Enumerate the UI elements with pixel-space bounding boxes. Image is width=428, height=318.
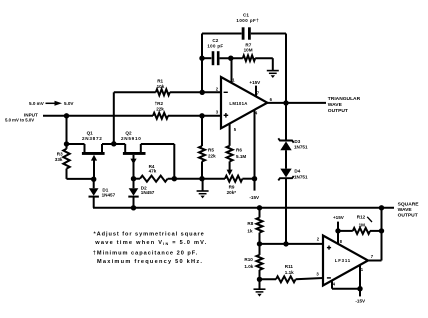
- svg-text:D3: D3: [294, 139, 300, 144]
- svg-text:2N5910: 2N5910: [121, 136, 142, 141]
- svg-text:D4: D4: [294, 169, 300, 174]
- svg-text:R8: R8: [247, 221, 253, 226]
- svg-text:R11: R11: [285, 264, 294, 269]
- svg-text:1M: 1M: [359, 222, 366, 227]
- svg-text:LM101A: LM101A: [229, 101, 247, 106]
- svg-text:10M: 10M: [244, 48, 253, 53]
- svg-text:1000 pF†: 1000 pF†: [236, 18, 259, 23]
- svg-text:20k*: 20k*: [227, 190, 237, 195]
- svg-text:†Minimum capacitance 20 pF.: †Minimum capacitance 20 pF.: [93, 250, 198, 256]
- svg-text:1k: 1k: [247, 228, 253, 233]
- svg-text:Maximum frequency 50 kHz.: Maximum frequency 50 kHz.: [97, 259, 203, 265]
- svg-text:10k: 10k: [157, 84, 165, 89]
- svg-text:†R2: †R2: [155, 101, 164, 106]
- svg-text:Q2: Q2: [125, 131, 132, 136]
- svg-text:2N3872: 2N3872: [82, 136, 103, 141]
- svg-text:1N457: 1N457: [141, 190, 155, 195]
- svg-text:5.1M: 5.1M: [236, 154, 246, 159]
- svg-text:C1: C1: [243, 12, 249, 17]
- svg-text:R3: R3: [57, 152, 63, 157]
- svg-text:R6: R6: [236, 147, 242, 152]
- svg-text:5.0V: 5.0V: [64, 101, 74, 106]
- svg-text:WAVE: WAVE: [328, 102, 343, 108]
- svg-text:LF311: LF311: [335, 258, 351, 263]
- svg-text:1N457: 1N457: [102, 192, 116, 197]
- svg-text:-15V: -15V: [249, 195, 260, 200]
- svg-text:R5: R5: [208, 147, 214, 152]
- svg-text:OUTPUT: OUTPUT: [398, 212, 418, 218]
- svg-text:1.1k: 1.1k: [285, 270, 294, 275]
- svg-text:R7: R7: [245, 42, 251, 47]
- svg-text:R10: R10: [244, 257, 253, 262]
- svg-text:1.0k: 1.0k: [244, 264, 253, 269]
- svg-text:R12: R12: [357, 214, 366, 219]
- svg-text:100 pF: 100 pF: [207, 44, 223, 49]
- svg-text:-15V: -15V: [355, 298, 366, 303]
- svg-text:wave time when VIN = 5.0 mV.: wave time when VIN = 5.0 mV.: [94, 240, 207, 246]
- svg-text:1N751: 1N751: [294, 174, 308, 179]
- svg-text:*Adjust for symmetrical square: *Adjust for symmetrical square: [94, 231, 205, 237]
- svg-text:R9: R9: [229, 185, 235, 190]
- svg-text:SQUARE: SQUARE: [398, 201, 420, 207]
- svg-text:5.0 mV to 5.0V: 5.0 mV to 5.0V: [5, 118, 34, 123]
- svg-text:33k: 33k: [55, 157, 63, 162]
- svg-text:+15V: +15V: [333, 215, 345, 220]
- svg-text:Q1: Q1: [87, 131, 94, 136]
- svg-text:22k: 22k: [156, 106, 164, 111]
- svg-text:22k: 22k: [208, 154, 216, 159]
- svg-text:5.0 mV: 5.0 mV: [29, 101, 45, 106]
- svg-text:1N751: 1N751: [294, 145, 308, 150]
- svg-text:R1: R1: [157, 79, 163, 84]
- svg-text:+15V: +15V: [249, 80, 261, 85]
- svg-text:C2: C2: [212, 38, 218, 43]
- svg-text:WAVE: WAVE: [398, 207, 413, 213]
- svg-text:TRIANGULAR: TRIANGULAR: [328, 96, 361, 102]
- svg-text:47k: 47k: [149, 169, 157, 174]
- svg-text:OUTPUT: OUTPUT: [328, 108, 348, 114]
